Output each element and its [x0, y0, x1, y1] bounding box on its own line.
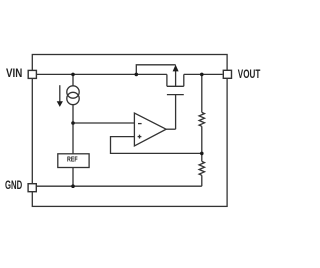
current source I1: [67, 86, 79, 105]
wire VOUT node to R1: [201, 74, 203, 112]
resistor R1: [199, 112, 204, 126]
pin VOUT: [223, 70, 231, 78]
wire op-amp output to gate: [166, 128, 176, 130]
svg-text:VIN: VIN: [6, 66, 22, 80]
current direction arrow: [57, 85, 63, 107]
transistor Q1 source lead: [166, 74, 168, 86]
transistor Q1 gate bar: [167, 94, 184, 96]
wire Q1 drain to VOUT: [184, 73, 223, 75]
wire inverting input: [73, 122, 135, 124]
wire REF to GND: [72, 168, 74, 187]
op-amp non-inverting input symbol: [138, 135, 142, 139]
transistor Q1 drain lead: [183, 74, 185, 86]
wire current source top lead: [72, 74, 74, 85]
wire current source to REF: [72, 105, 74, 154]
node junction VIN/bulk: [135, 73, 139, 77]
wire VIN to Q1 source: [37, 73, 167, 75]
op-amp U1 error amplifier: [134, 113, 166, 146]
svg-text:VOUT: VOUT: [238, 67, 261, 81]
pin GND: [28, 184, 36, 192]
wire GND rail: [37, 185, 202, 187]
node junction feedback: [200, 152, 204, 156]
wire Q1 bulk loop: [136, 65, 175, 75]
wire R1 to R2: [201, 126, 203, 161]
transistor Q1 gate lead: [175, 95, 177, 130]
svg-text:REF: REF: [67, 154, 78, 163]
wire R2 bottom lead: [201, 175, 203, 186]
transistor Q1 channel bar: [167, 85, 184, 87]
svg-text:GND: GND: [5, 178, 22, 192]
node junction REF/GND: [71, 184, 75, 188]
node junction current-source/inv-input: [71, 121, 75, 125]
REF block: [58, 154, 89, 168]
IC outline box: [32, 55, 227, 207]
op-amp inverting input symbol: [138, 123, 142, 125]
resistor R2: [199, 161, 204, 175]
node junction VIN/current-source: [71, 73, 75, 77]
transistor Q1 bulk arrow: [173, 65, 179, 87]
pin VIN: [28, 70, 36, 78]
node junction drain/R1: [200, 73, 204, 77]
wire feedback to non-inverting input: [111, 137, 202, 154]
